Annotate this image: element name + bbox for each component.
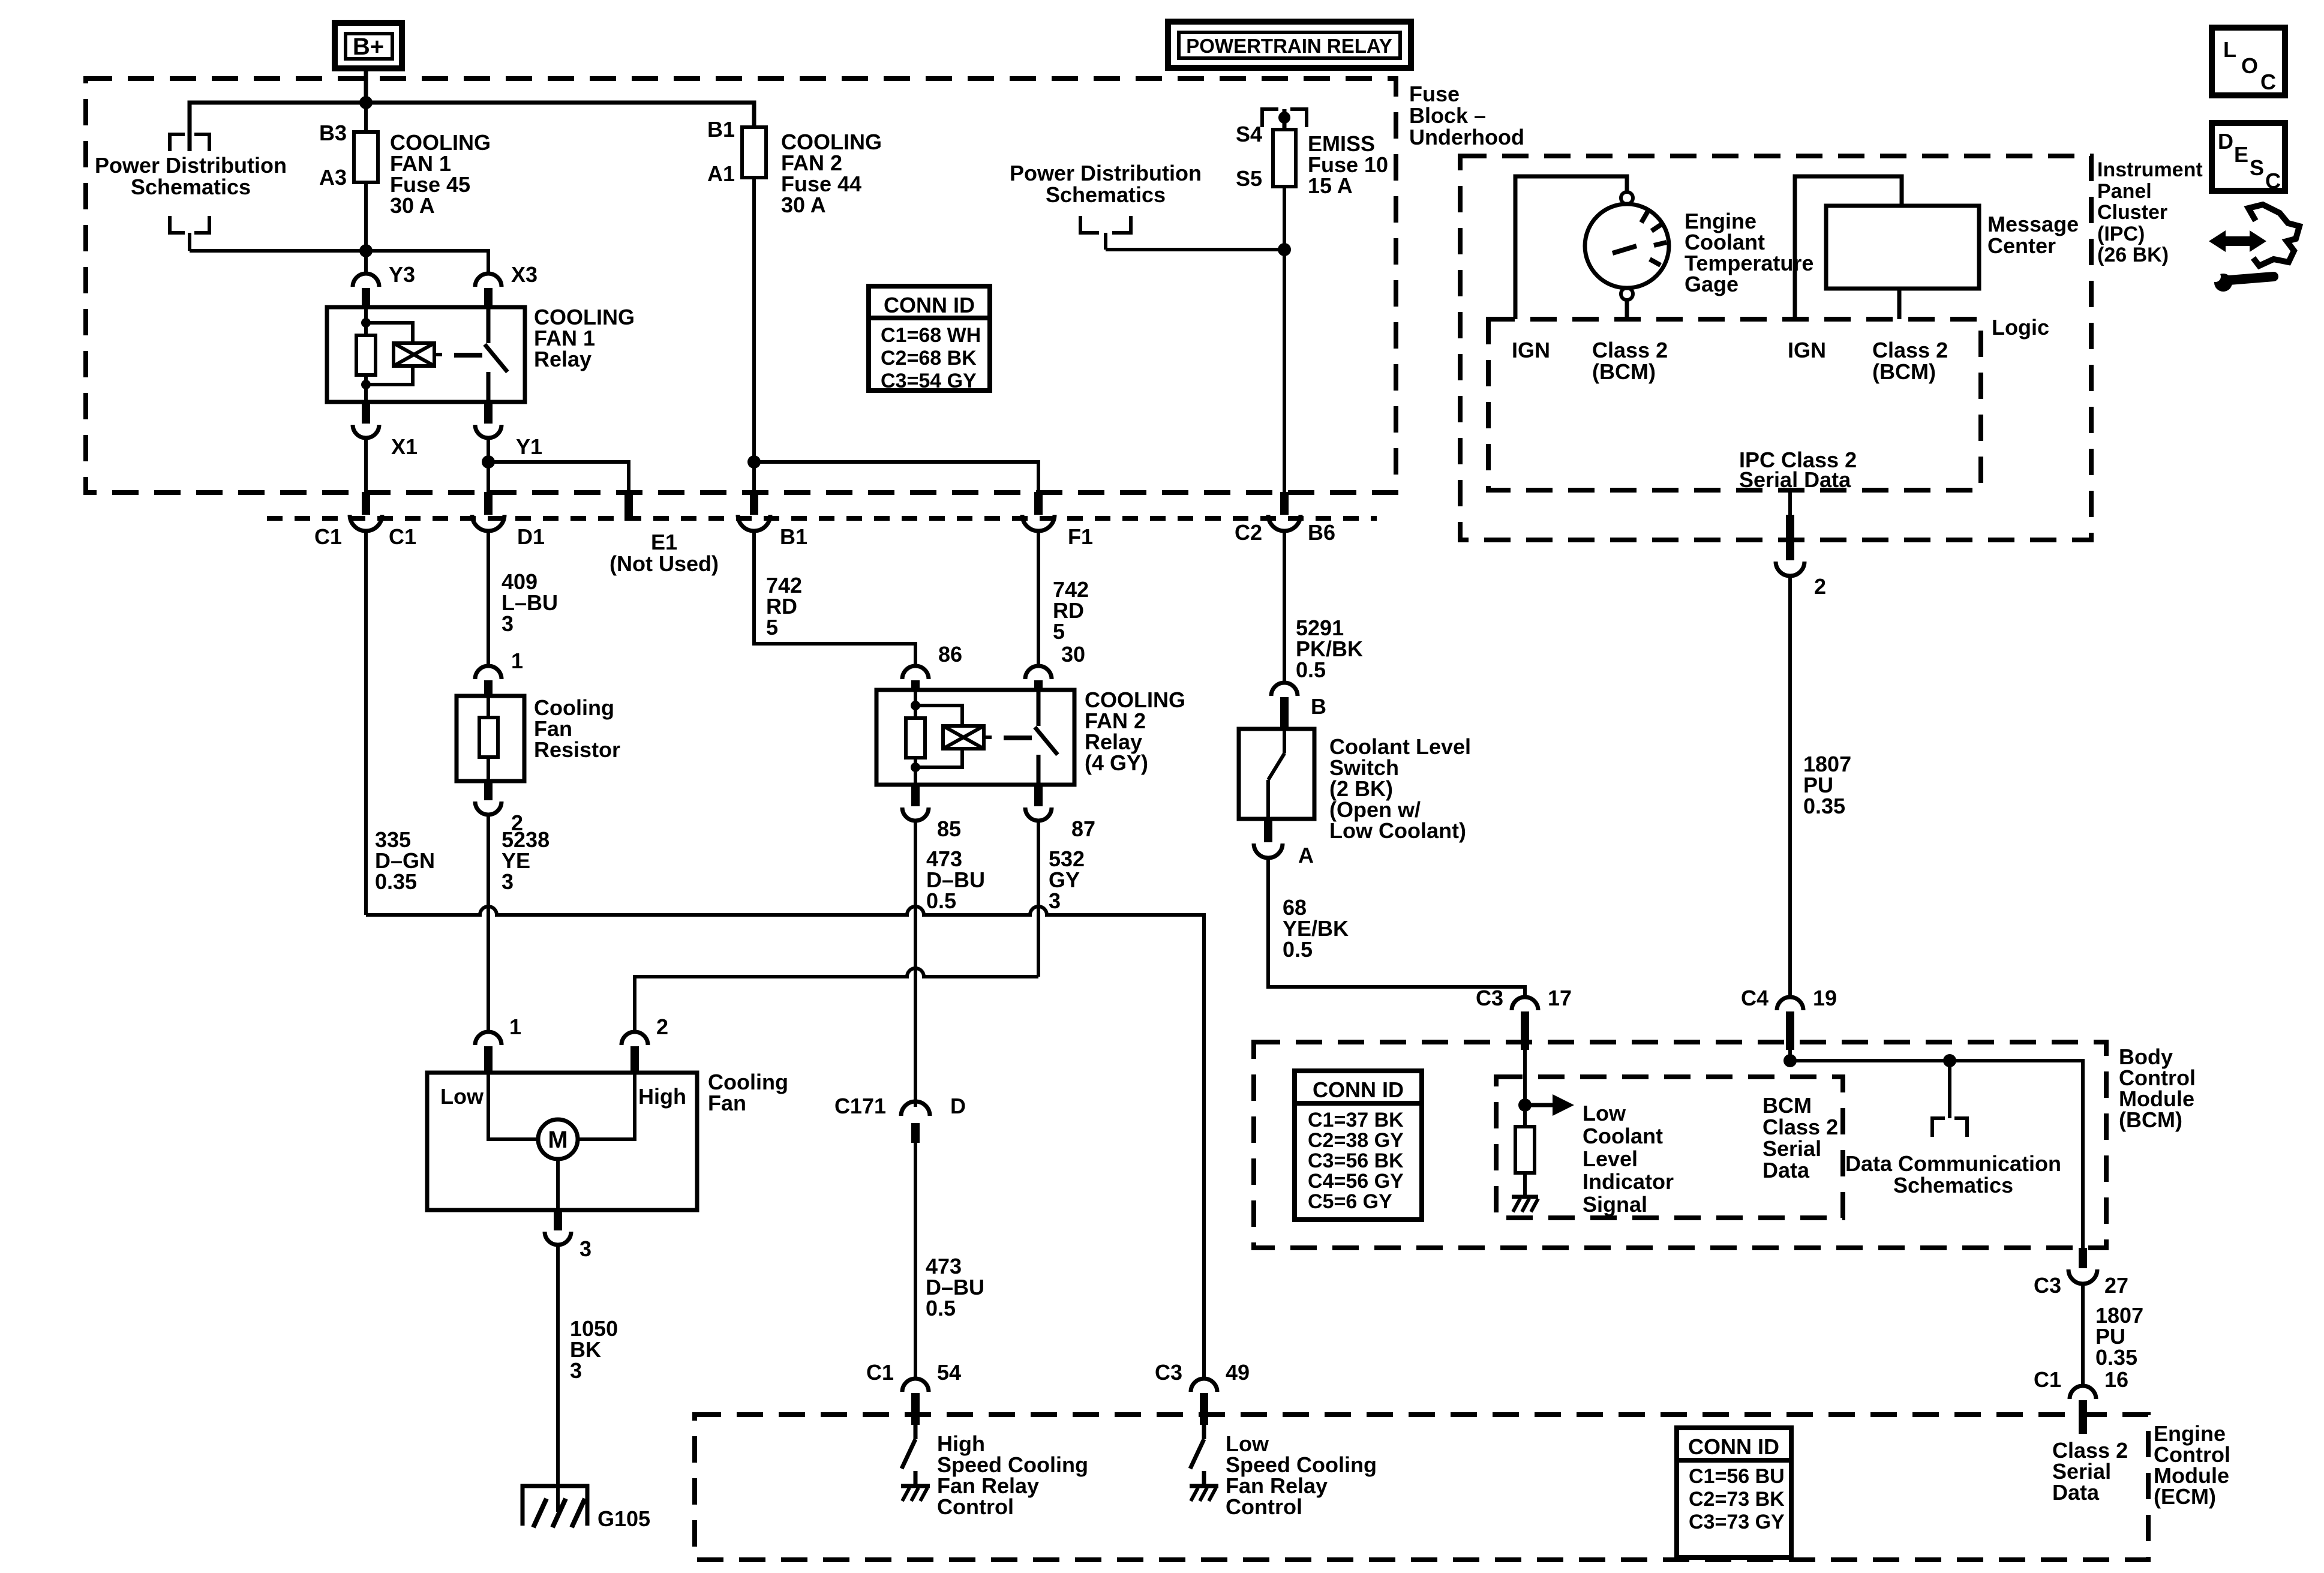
svg-text:Power Distribution: Power Distribution: [1010, 161, 1202, 185]
svg-text:Y1: Y1: [516, 434, 542, 459]
svg-text:30: 30: [1061, 642, 1085, 667]
svg-text:C4=56 GY: C4=56 GY: [1308, 1170, 1404, 1193]
svg-text:0.35: 0.35: [1803, 794, 1845, 818]
svg-text:A: A: [1298, 843, 1314, 867]
svg-text:Level: Level: [1583, 1146, 1638, 1171]
svg-text:(Not Used): (Not Used): [609, 551, 719, 576]
svg-text:C3=73 GY: C3=73 GY: [1689, 1511, 1785, 1533]
svg-text:C1=37 BK: C1=37 BK: [1308, 1109, 1404, 1131]
svg-text:B6: B6: [1308, 520, 1335, 545]
svg-text:87: 87: [1071, 816, 1095, 841]
svg-text:49: 49: [1226, 1360, 1250, 1385]
svg-text:1: 1: [509, 1014, 521, 1039]
svg-text:Gage: Gage: [1685, 272, 1739, 296]
svg-text:IGN: IGN: [1788, 338, 1826, 362]
svg-text:Low Coolant): Low Coolant): [1329, 818, 1466, 843]
svg-text:X1: X1: [391, 434, 418, 459]
svg-text:0.5: 0.5: [926, 888, 956, 913]
svg-text:16: 16: [2104, 1367, 2128, 1392]
svg-text:C171: C171: [834, 1094, 886, 1118]
svg-text:B1: B1: [780, 524, 807, 549]
svg-text:C5=6 GY: C5=6 GY: [1308, 1190, 1392, 1213]
svg-text:E: E: [2234, 142, 2248, 167]
svg-text:0.35: 0.35: [2095, 1345, 2137, 1370]
svg-text:Data: Data: [2052, 1480, 2100, 1505]
svg-text:(BCM): (BCM): [1592, 359, 1656, 384]
svg-text:Low: Low: [440, 1084, 484, 1109]
svg-text:Center: Center: [1987, 233, 2056, 258]
svg-text:IGN: IGN: [1512, 338, 1550, 362]
svg-text:2: 2: [1814, 574, 1826, 599]
svg-text:0.35: 0.35: [375, 869, 417, 894]
svg-text:0.5: 0.5: [1283, 937, 1313, 962]
svg-text:5: 5: [766, 615, 778, 640]
svg-text:L: L: [2223, 37, 2236, 62]
svg-text:(IPC): (IPC): [2097, 223, 2145, 245]
svg-text:Y3: Y3: [389, 262, 415, 287]
svg-text:C3: C3: [2034, 1273, 2061, 1298]
svg-text:Fuse: Fuse: [1409, 82, 1460, 106]
svg-text:Data: Data: [1762, 1158, 1810, 1182]
svg-text:(4 GY): (4 GY): [1085, 751, 1148, 775]
svg-text:CONN ID: CONN ID: [1688, 1434, 1779, 1459]
svg-text:Block –: Block –: [1409, 103, 1486, 128]
svg-text:Fan: Fan: [708, 1091, 746, 1115]
svg-text:5: 5: [1053, 619, 1065, 644]
svg-text:3: 3: [580, 1236, 591, 1261]
svg-text:2: 2: [656, 1014, 668, 1039]
svg-text:O: O: [2241, 53, 2258, 78]
svg-text:Underhood: Underhood: [1409, 125, 1524, 149]
svg-text:(BCM): (BCM): [2119, 1107, 2182, 1132]
svg-text:(BCM): (BCM): [1872, 359, 1936, 384]
svg-text:Low: Low: [1583, 1101, 1626, 1125]
svg-text:Relay: Relay: [534, 347, 591, 371]
svg-text:Panel: Panel: [2097, 180, 2152, 203]
svg-text:86: 86: [938, 642, 962, 667]
svg-text:C1: C1: [389, 524, 416, 549]
svg-text:1: 1: [511, 649, 523, 673]
svg-text:(26 BK): (26 BK): [2097, 244, 2169, 266]
svg-text:C1: C1: [314, 524, 342, 549]
svg-text:17: 17: [1548, 986, 1572, 1010]
svg-text:Resistor: Resistor: [534, 737, 620, 762]
svg-text:C2: C2: [1235, 520, 1262, 545]
svg-text:A3: A3: [319, 165, 347, 190]
svg-text:Schematics: Schematics: [1893, 1173, 2013, 1197]
svg-text:Instrument: Instrument: [2097, 158, 2203, 181]
svg-text:S5: S5: [1236, 166, 1262, 191]
svg-text:D1: D1: [517, 524, 545, 549]
svg-text:85: 85: [937, 816, 961, 841]
svg-text:Schematics: Schematics: [131, 175, 251, 199]
svg-text:19: 19: [1813, 986, 1837, 1010]
svg-text:CONN ID: CONN ID: [884, 293, 975, 317]
svg-text:3: 3: [570, 1358, 582, 1383]
svg-text:Data Communication: Data Communication: [1845, 1151, 2061, 1176]
svg-text:B+: B+: [353, 34, 384, 60]
svg-text:C3: C3: [1155, 1360, 1182, 1385]
svg-text:3: 3: [1049, 888, 1061, 913]
svg-text:(ECM): (ECM): [2154, 1484, 2216, 1509]
svg-text:C2=73 BK: C2=73 BK: [1689, 1488, 1785, 1511]
svg-text:F1: F1: [1068, 524, 1093, 549]
svg-text:G105: G105: [597, 1506, 650, 1531]
svg-text:Message: Message: [1987, 212, 2079, 236]
svg-text:0.5: 0.5: [1296, 658, 1326, 682]
svg-text:Power Distribution: Power Distribution: [95, 153, 287, 178]
svg-text:Serial: Serial: [1762, 1136, 1821, 1161]
svg-text:B: B: [1311, 694, 1326, 719]
svg-text:A1: A1: [707, 161, 735, 186]
svg-text:D: D: [950, 1094, 966, 1118]
svg-text:C2=68 BK: C2=68 BK: [881, 347, 977, 370]
svg-text:C2=38 GY: C2=38 GY: [1308, 1129, 1404, 1152]
svg-text:C: C: [2260, 70, 2276, 94]
svg-text:C3=54 GY: C3=54 GY: [881, 370, 977, 392]
svg-text:E1: E1: [651, 530, 677, 554]
svg-text:S: S: [2250, 155, 2264, 180]
svg-text:Class 2: Class 2: [1762, 1115, 1838, 1139]
svg-text:C3=56 BK: C3=56 BK: [1308, 1149, 1404, 1172]
svg-text:POWERTRAIN RELAY: POWERTRAIN RELAY: [1186, 35, 1392, 57]
svg-text:C1=68 WH: C1=68 WH: [881, 324, 981, 347]
svg-text:Serial Data: Serial Data: [1739, 467, 1851, 492]
svg-text:Logic: Logic: [1992, 315, 2049, 340]
svg-text:BCM: BCM: [1762, 1093, 1812, 1118]
svg-text:C4: C4: [1741, 986, 1768, 1010]
svg-text:Cluster: Cluster: [2097, 201, 2167, 224]
svg-text:Class 2: Class 2: [1872, 338, 1948, 362]
svg-text:Schematics: Schematics: [1046, 182, 1166, 207]
svg-text:0.5: 0.5: [926, 1296, 956, 1320]
svg-text:30 A: 30 A: [390, 193, 435, 218]
svg-text:S4: S4: [1236, 122, 1262, 146]
svg-text:3: 3: [502, 611, 514, 636]
svg-text:C3: C3: [1476, 986, 1503, 1010]
svg-text:B3: B3: [319, 121, 347, 145]
svg-text:M: M: [548, 1127, 568, 1153]
svg-text:27: 27: [2104, 1273, 2128, 1298]
svg-text:D: D: [2218, 129, 2233, 154]
svg-text:X3: X3: [511, 262, 538, 287]
svg-text:30 A: 30 A: [781, 193, 826, 217]
svg-text:Coolant: Coolant: [1583, 1124, 1663, 1148]
svg-text:Control: Control: [937, 1494, 1014, 1519]
svg-text:C1: C1: [2034, 1367, 2061, 1392]
svg-text:3: 3: [502, 869, 514, 894]
svg-text:Indicator: Indicator: [1583, 1169, 1674, 1194]
svg-text:2: 2: [511, 810, 523, 835]
svg-text:C: C: [2265, 169, 2281, 193]
svg-text:High: High: [638, 1084, 686, 1109]
svg-text:15 A: 15 A: [1308, 173, 1353, 198]
svg-text:CONN ID: CONN ID: [1313, 1077, 1404, 1102]
svg-text:54: 54: [937, 1360, 961, 1385]
svg-text:B1: B1: [707, 117, 735, 142]
svg-text:C1=56 BU: C1=56 BU: [1689, 1465, 1785, 1488]
svg-text:Signal: Signal: [1583, 1192, 1647, 1217]
svg-text:Control: Control: [1226, 1494, 1302, 1519]
svg-text:C1: C1: [866, 1360, 894, 1385]
svg-text:Class 2: Class 2: [1592, 338, 1668, 362]
